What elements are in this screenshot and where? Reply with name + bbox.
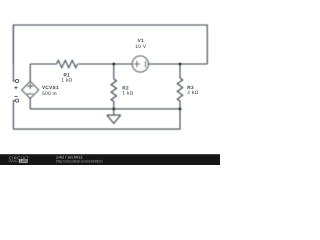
svg-text:2 kΩ: 2 kΩ (187, 90, 198, 96)
CircuitLab logo resistor zigzag (8, 160, 18, 162)
svg-text:10 V: 10 V (135, 44, 147, 50)
wire: V1 right terminal to right rail (148, 63, 207, 65)
svg-text:R3: R3 (187, 85, 194, 90)
R2 bottom lead wire (113, 102, 115, 109)
VCVS1 dependent source body (22, 81, 39, 98)
svg-text:1 kΩ: 1 kΩ (61, 78, 72, 84)
wire: R1 to V1 left terminal (78, 63, 132, 65)
label - of sensing port (14, 95, 17, 97)
R3 bottom lead wire (179, 101, 181, 109)
svg-text:1 kΩ: 1 kΩ (122, 90, 133, 96)
R3 top lead wire (179, 64, 181, 78)
voltage source V1 body (132, 56, 148, 72)
junction dot at R2 bottom node (112, 107, 115, 110)
junction dot at R2 top node (112, 63, 115, 66)
wire: bottom rail (13, 109, 180, 129)
VCVS1 - polarity mark (27, 93, 33, 95)
junction dot at R3 top node (179, 63, 182, 66)
ground symbol GND (107, 109, 121, 124)
V1 + mark (134, 61, 141, 68)
svg-text:V1: V1 (138, 38, 144, 43)
V1 - mark (rotated bar) (145, 61, 147, 67)
resistor R1 (57, 60, 78, 67)
terminal circle port - (16, 99, 19, 102)
footer bar (0, 154, 220, 165)
label + of sensing port (14, 86, 17, 89)
R2 top lead wire (113, 64, 115, 79)
wire: mid row left (VCVS1 top to R1) (30, 63, 56, 65)
resistor R3 (177, 78, 182, 101)
VCVS1 + polarity mark (27, 83, 33, 89)
VCVS1 bottom lead wire (29, 98, 31, 109)
resistor R2 (111, 79, 116, 102)
svg-text:http://circuitlab.com/c46852v: http://circuitlab.com/c46852v (56, 159, 103, 163)
CircuitLab logo LAB block (19, 159, 28, 163)
terminal circle port + (16, 79, 19, 82)
wire: left vertical upper (top rail to port +) (13, 25, 15, 81)
svg-text:LAB: LAB (20, 159, 28, 163)
junction dot at R3 bottom node (179, 107, 182, 110)
svg-text:VCVS1: VCVS1 (42, 85, 59, 90)
wire: left vertical lower (port - to bottom rail) (13, 101, 15, 130)
svg-text:R2: R2 (122, 86, 129, 91)
wire: top rail node A (13, 25, 207, 64)
wire: bottom node wire (VCVS1 / R2 / R3 bottoms) (30, 108, 180, 110)
svg-text:500 m: 500 m (42, 91, 57, 97)
VCVS1 top lead wire (29, 64, 31, 82)
svg-text:R1: R1 (64, 73, 71, 78)
